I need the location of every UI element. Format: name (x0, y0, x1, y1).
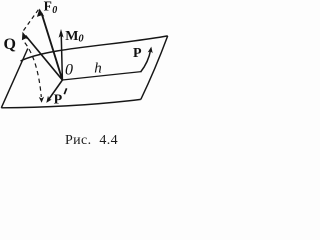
vector F0 shaft (42, 13, 63, 80)
vector M0 shaft (61, 33, 62, 80)
caption (6, 133, 178, 149)
vector P-prime shaft (49, 80, 62, 99)
svg-text:P: P (133, 46, 142, 61)
vector P-prime arrowhead (46, 96, 51, 103)
vector Q shaft (26, 36, 63, 81)
vector P arrowhead (148, 47, 153, 54)
vector F0 arrowhead (37, 9, 44, 17)
vector M0 arrowhead (59, 29, 64, 38)
vector P shaft (141, 50, 151, 72)
plane left edge (1, 49, 28, 108)
vector Q arrowhead (22, 32, 29, 41)
plane right edge (141, 36, 168, 100)
dashed vector from Q tip down to plane (25, 43, 42, 97)
svg-text:M: M (65, 29, 78, 44)
plane bottom edge (1, 99, 141, 107)
svg-text:0: 0 (65, 61, 73, 78)
svg-text:Q: Q (4, 36, 16, 53)
plane parallelogram (1, 36, 167, 108)
dashed vector arrowhead (39, 97, 44, 103)
dashed construction line from Q tip to F0 tip (24, 10, 39, 31)
svg-text:0: 0 (52, 5, 57, 16)
svg-text:h: h (94, 60, 102, 76)
distance line h from O to P base (62, 72, 141, 80)
svg-text:P: P (54, 92, 63, 107)
svg-text:0: 0 (78, 34, 84, 45)
plane top edge (21, 36, 168, 61)
svg-text:F: F (44, 0, 52, 13)
